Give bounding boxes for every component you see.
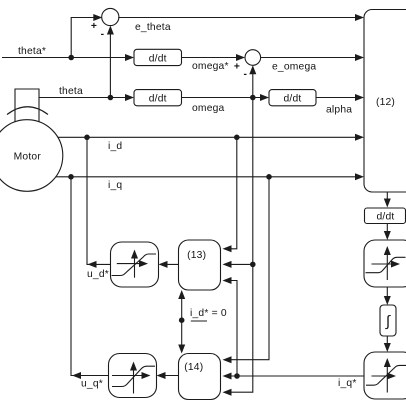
block d/dt B4 (right column differentiator) <box>365 208 406 224</box>
block saturation N5 (u_q* limiter) <box>109 354 157 398</box>
motor M1 rotation arc <box>7 107 48 115</box>
svg-text:d/dt: d/dt <box>149 94 167 105</box>
label i_q* <box>338 378 357 389</box>
wire i_q* branch up into (13) bottom input <box>223 277 238 376</box>
label e_omega <box>272 62 316 73</box>
node theta branch dot <box>108 95 114 101</box>
summing junction S2 (omega) <box>245 50 261 66</box>
wire i_d* label underline stub <box>191 320 207 322</box>
svg-text:-: - <box>243 69 247 80</box>
svg-text:d/dt: d/dt <box>377 212 395 223</box>
label u_q* <box>81 379 103 390</box>
label i_q <box>108 180 122 191</box>
block integrator N2 <box>380 305 396 336</box>
svg-text:d/dt: d/dt <box>149 53 167 64</box>
wire block (12) down to d/dt B4 <box>384 192 391 208</box>
block (12) controller <box>364 10 406 193</box>
label theta* <box>18 46 46 57</box>
label i_d* = 0 with underline <box>190 308 227 319</box>
svg-text:e_omega: e_omega <box>272 62 316 73</box>
svg-text:omega*: omega* <box>192 61 229 72</box>
block d/dt B1 (theta* differentiator) <box>134 49 182 65</box>
node i_d*=0 dot <box>179 317 185 323</box>
motor M1 shaft rectangle <box>15 89 39 122</box>
wire theta* up to summing junction S1 <box>71 14 102 58</box>
wire theta* input line <box>2 54 134 61</box>
motor M1 body <box>0 120 63 192</box>
svg-text:alpha: alpha <box>326 105 352 116</box>
node i_q / u_q* dot <box>68 174 74 180</box>
label omega* <box>192 61 229 72</box>
svg-text:+: + <box>234 62 240 73</box>
label u_d* <box>87 269 109 280</box>
svg-text:-: - <box>101 29 105 40</box>
label alpha <box>326 105 352 116</box>
wire i_d branch down into (13) top input <box>223 137 237 252</box>
block (14) q-axis controller <box>179 354 221 400</box>
wire saturation N1 down to integrator N2 <box>384 287 391 305</box>
saturation N3 symbol <box>366 358 406 393</box>
svg-text:i_d* = 0: i_d* = 0 <box>190 308 227 319</box>
wire u_q* from N5 left then up to i_q node <box>71 177 109 379</box>
node theta* branch dot <box>68 55 74 61</box>
svg-text:theta: theta <box>59 86 83 97</box>
label i_d <box>108 141 122 152</box>
node omega tap dot to (13) <box>250 262 256 268</box>
svg-text:d/dt: d/dt <box>284 94 302 105</box>
node omega branch dot <box>250 95 256 101</box>
wire (13) output into saturation N4 <box>159 261 179 268</box>
wire i_d*=0 between (13) and (14) <box>178 290 185 354</box>
block saturation N4 (u_d* limiter) <box>111 242 159 287</box>
wire alpha from B3 to block (12) <box>316 94 364 101</box>
block d/dt B3 (omega differentiator) <box>269 90 316 106</box>
wire omega* from B1 to summing junction S2 <box>182 54 246 61</box>
wire theta up to summing junction S1 minus <box>107 26 114 98</box>
svg-text:omega: omega <box>192 103 225 114</box>
svg-text:e_theta: e_theta <box>135 22 171 33</box>
wire u_d* from N4 left then up to i_d node <box>87 137 111 268</box>
wire i_q branch down into (14) top input <box>223 177 270 363</box>
wire integrator N2 down to saturation N3 <box>384 336 391 352</box>
saturation N4 symbol <box>112 250 156 278</box>
block d/dt B2 (theta differentiator) <box>134 90 182 106</box>
wire i_q* from saturation N3 to (14) middle input <box>223 373 365 380</box>
wire i_q from motor to block (12) <box>56 173 364 180</box>
motor M1 label <box>14 152 42 163</box>
wire i_d from motor to block (12) <box>58 134 364 141</box>
svg-text:+: + <box>91 21 97 32</box>
node i_d / u_d* dot <box>84 135 90 141</box>
wire e_theta from S1 to block (12) <box>118 14 364 21</box>
summing junction S1 minus sign <box>101 29 105 40</box>
svg-text:i_q: i_q <box>108 180 122 191</box>
saturation N5 symbol <box>112 362 155 394</box>
saturation N1 symbol <box>366 246 406 280</box>
svg-text:(14): (14) <box>184 362 203 373</box>
wire omega tap into (13) middle input <box>223 261 253 268</box>
svg-text:i_d: i_d <box>108 141 122 152</box>
label theta <box>59 86 83 97</box>
svg-text:(13): (13) <box>187 250 206 261</box>
svg-text:i_q*: i_q* <box>338 378 357 389</box>
summing junction S2 minus sign <box>243 69 247 80</box>
node i_d branch dot to (13) <box>234 135 240 141</box>
summing junction S2 plus sign <box>234 62 240 73</box>
wire d/dt B4 down to saturation N1 <box>384 224 391 241</box>
svg-text:u_d*: u_d* <box>87 269 109 280</box>
wire e_omega from S2 to block (12) <box>261 54 364 61</box>
label e_theta <box>135 22 171 33</box>
wire (14) output into saturation N5 <box>157 372 179 379</box>
svg-text:theta*: theta* <box>18 46 46 57</box>
block saturation N1 (right top limiter) <box>364 240 406 287</box>
summing junction S1 plus sign <box>91 21 97 32</box>
svg-text:Motor: Motor <box>14 152 42 163</box>
label omega <box>192 103 225 114</box>
block saturation N3 (right bottom limiter, i_q*) <box>364 352 406 399</box>
wire theta from motor shaft to d/dt B2 <box>39 94 134 101</box>
block (13) d-axis controller <box>179 240 221 290</box>
wire omega from B2 to d/dt B3 <box>182 94 270 101</box>
node i_q* branch dot <box>234 373 240 379</box>
svg-text:u_q*: u_q* <box>81 379 103 390</box>
wire omega vertical: up to S2 minus and down to (14) <box>223 65 257 395</box>
summing junction S1 (theta) <box>102 8 119 25</box>
svg-text:(12): (12) <box>376 97 395 108</box>
node i_q branch dot to (14) <box>266 174 272 180</box>
